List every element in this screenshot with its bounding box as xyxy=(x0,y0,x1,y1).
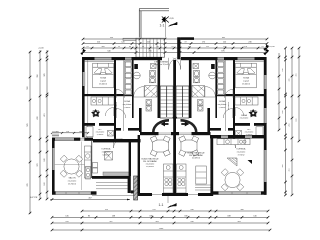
dining right bottom wall xyxy=(176,193,188,196)
stair flight right xyxy=(176,86,189,118)
window segments right wing bottom wall xyxy=(221,135,228,138)
window top wall above left closet xyxy=(125,57,132,59)
svg-text:ne platne: ne platne xyxy=(68,180,77,183)
tick marks top xyxy=(82,37,269,54)
outer wall: top wall left wing xyxy=(82,57,162,60)
bed right: body xyxy=(236,67,257,88)
bedroom left: right wall xyxy=(114,60,116,139)
guide line x81.5 in living xyxy=(81,142,83,191)
bathroom right wall xyxy=(215,60,217,118)
dimension line bottom left small xyxy=(50,199,130,201)
svg-text:7,74m2: 7,74m2 xyxy=(238,155,246,157)
window right bedroom wall xyxy=(264,75,267,89)
svg-text:SOBA: SOBA xyxy=(100,77,106,80)
kitchen counter left living xyxy=(85,146,92,179)
label lower room left xyxy=(96,129,105,136)
svg-text:+0,00: +0,00 xyxy=(269,46,275,48)
bed left: headboard xyxy=(93,63,114,67)
door in bay bottom left xyxy=(159,132,172,134)
label star room right xyxy=(240,114,249,120)
label salon left xyxy=(68,177,77,186)
room2 door arc right xyxy=(223,109,233,119)
star room door arc left xyxy=(105,108,114,117)
bedroom right: left wall xyxy=(233,60,235,139)
window top wall above right bed xyxy=(238,57,255,59)
tall cabinet lower-right room xyxy=(256,127,263,137)
divider wall living/kitchen xyxy=(91,141,93,178)
label dining right xyxy=(188,152,205,160)
label bedroom right xyxy=(242,77,251,86)
svg-text:1,96m2: 1,96m2 xyxy=(246,134,254,136)
round table left living xyxy=(60,155,83,177)
wall below star room left xyxy=(82,123,95,126)
dimension line left mid xyxy=(39,50,41,199)
WC left xyxy=(150,71,156,77)
entry bay curved wall left xyxy=(152,119,169,132)
terrace corner step down xyxy=(128,176,131,193)
window right living right wall xyxy=(264,150,267,182)
dimension line left inner xyxy=(46,50,48,199)
inner face line left wall xyxy=(87,60,89,139)
study door arc left xyxy=(114,139,123,148)
living right: left wall xyxy=(210,136,213,196)
WC right xyxy=(194,71,200,77)
bedroom door right: leaf and arc xyxy=(225,89,234,98)
sideboard right dining xyxy=(196,166,207,184)
window left bedroom wall xyxy=(83,72,86,86)
label room2 right xyxy=(218,100,227,109)
outer wall: left wall upper band xyxy=(82,57,85,141)
svg-text:13,04m2: 13,04m2 xyxy=(242,84,251,86)
right dimension chains xyxy=(278,47,301,197)
washer boxes left xyxy=(146,100,152,106)
washer boxes right xyxy=(198,100,204,106)
svg-text:KUHINJA: KUHINJA xyxy=(102,148,112,151)
bathroom left wall / stair wall right xyxy=(189,60,192,118)
window top wall above left bed xyxy=(95,57,112,59)
wall x139-142 bathroom lower left xyxy=(139,108,142,132)
terrace hatched block xyxy=(134,176,138,200)
living room left: bottom wall glazing xyxy=(55,192,91,195)
bidet right xyxy=(194,78,200,83)
arrow cluster left end of top chains xyxy=(81,49,86,54)
svg-text:KUHINJA: KUHINJA xyxy=(237,148,247,151)
left wing bottom wall xyxy=(93,139,141,142)
dimension line left outer xyxy=(29,51,31,214)
exterior entry stair block xyxy=(136,38,165,57)
inner face line bedroom right top xyxy=(235,60,264,62)
dimension line right d xyxy=(298,48,300,141)
section marker top xyxy=(160,16,175,37)
arrow cluster right end of top chains xyxy=(264,45,269,55)
bed right: pillows xyxy=(237,69,245,75)
bedroom left: bottom wall xyxy=(82,94,133,96)
study door arc right xyxy=(227,139,236,148)
label bedroom left xyxy=(99,77,108,86)
svg-text:140: 140 xyxy=(79,131,82,133)
top dimension chain lines xyxy=(82,37,269,54)
vent box with X right xyxy=(193,64,199,69)
label kitchen left xyxy=(102,148,112,157)
tall cabinet lower-left room xyxy=(86,127,93,137)
dimension line top3 xyxy=(83,47,267,49)
svg-text:zapad: zapad xyxy=(243,81,250,83)
party wall center xyxy=(173,60,176,136)
shower right with diagonals xyxy=(192,86,205,98)
svg-text:HODNIK: HODNIK xyxy=(116,101,118,110)
duct shaft black left xyxy=(134,64,138,69)
window left living wall xyxy=(52,148,55,170)
party wall lower xyxy=(173,136,176,196)
svg-text:1-1: 1-1 xyxy=(160,24,165,28)
star room door arc right xyxy=(235,108,244,117)
room2 door arc left xyxy=(116,109,126,119)
terrace step lines xyxy=(92,183,135,196)
vent box with X left xyxy=(151,64,157,69)
stair flight left xyxy=(160,86,173,118)
study room star table left xyxy=(91,109,100,117)
porch parapet top right xyxy=(180,37,194,40)
svg-text:+2,85: +2,85 xyxy=(169,18,175,20)
washbasin circle left xyxy=(133,72,140,79)
bedroom door left: leaf and arc xyxy=(116,89,125,98)
fridge boxes left kitchen xyxy=(93,163,98,168)
left dimension chains xyxy=(27,50,49,214)
kitchen counter along top right living xyxy=(217,139,250,145)
bathroom door arc left xyxy=(134,87,145,98)
svg-text:1-1: 1-1 xyxy=(159,203,164,207)
svg-text:SALON: SALON xyxy=(68,177,76,180)
dining left bottom wall xyxy=(140,193,152,196)
dining left: left wall xyxy=(129,139,131,176)
label dining left xyxy=(142,158,159,169)
guide line across living xyxy=(55,164,91,166)
closet strip left xyxy=(125,61,133,95)
label room2 left xyxy=(123,100,132,109)
bottom dimension chains xyxy=(30,197,271,232)
small X box lower-left room xyxy=(108,131,114,137)
bed right: headboard xyxy=(236,63,257,67)
porch parapet top left xyxy=(123,38,136,40)
inner face line bedroom left top xyxy=(85,60,114,62)
svg-text:20,09m2: 20,09m2 xyxy=(192,158,201,160)
svg-text:ne platne: ne platne xyxy=(240,117,249,120)
svg-text:1,96m2: 1,96m2 xyxy=(97,134,105,136)
dimension line top2 xyxy=(83,43,267,45)
label vestibule left xyxy=(154,61,170,66)
steps right dining exit xyxy=(195,185,211,190)
dining table right with chairs xyxy=(179,136,199,156)
dimension line bottom2 xyxy=(52,216,268,218)
dimension line bottom total xyxy=(52,229,270,231)
svg-text:ne platne: ne platne xyxy=(218,103,227,106)
label lower room right xyxy=(245,129,254,136)
dining right: kitchen counter along party wall xyxy=(177,164,187,193)
section marker bottom xyxy=(159,196,177,208)
dining table left with chairs xyxy=(150,136,170,156)
entry arrow left xyxy=(161,122,169,127)
stair treads xyxy=(140,38,161,57)
dimension line right c xyxy=(291,48,293,195)
corridor wall line xyxy=(123,60,125,131)
outer wall: right wall upper band xyxy=(264,57,267,141)
kitchen counter along party wall left xyxy=(164,164,174,193)
dimension line top4 xyxy=(83,52,267,54)
washbasin circle right xyxy=(209,72,216,79)
bed left: body xyxy=(93,67,114,88)
terrace wall dark band xyxy=(92,176,130,179)
kitchen island left xyxy=(105,152,113,161)
living right: bottom wall glazing xyxy=(218,192,262,195)
window top wall above right closet xyxy=(218,57,225,59)
small bars left of living room xyxy=(52,132,59,134)
room2 bottom wall left xyxy=(116,128,121,131)
svg-text:ne platne: ne platne xyxy=(237,151,246,154)
dimension line top1 xyxy=(83,38,267,40)
entry arrow right xyxy=(181,122,189,127)
svg-text:547 PR: 547 PR xyxy=(30,197,38,199)
living room left: left wall xyxy=(52,138,55,195)
svg-text:SOBA: SOBA xyxy=(243,77,249,80)
wall x207-210 bathroom lower right xyxy=(207,108,210,132)
round table right living xyxy=(221,169,244,191)
door gap in wall at x81 xyxy=(80,137,84,141)
bathroom door arc right xyxy=(205,87,216,98)
wardrobe row under bedroom right xyxy=(235,97,258,105)
svg-text:HODNIK: HODNIK xyxy=(228,101,230,110)
dimension line bottom3 xyxy=(52,222,268,224)
svg-text:120: 120 xyxy=(66,131,69,133)
svg-text:13,74m2: 13,74m2 xyxy=(68,184,77,186)
diamond marker center xyxy=(172,115,177,120)
svg-text:20,09m2: 20,09m2 xyxy=(146,166,155,168)
dimension line right b xyxy=(285,48,287,195)
bathroom left wall xyxy=(132,60,134,118)
closet strip right xyxy=(217,61,225,95)
small X box lower-right room xyxy=(236,131,242,137)
bidet left xyxy=(150,78,156,83)
outer wall: top wall right wing xyxy=(181,57,267,60)
wall below star room right xyxy=(254,123,267,126)
porch side wall right xyxy=(177,37,180,59)
canopy edge line above entrance xyxy=(139,9,169,38)
entry bay curved wall right xyxy=(181,119,198,132)
entry door right apartment xyxy=(173,58,181,70)
living right: right wall lower xyxy=(264,141,267,195)
svg-text:ne platne: ne platne xyxy=(102,151,111,154)
svg-text:5,66m2: 5,66m2 xyxy=(103,155,111,157)
duct shaft black right xyxy=(211,64,215,69)
label kitchen right xyxy=(237,148,247,157)
center bottom wall of bay xyxy=(140,132,159,135)
entry door left apartment xyxy=(169,58,177,70)
mini dimension chain above living left xyxy=(51,131,89,134)
bathroom right wall / stair wall xyxy=(158,60,161,118)
dimension numbers top xyxy=(0,0,1,1)
door in bay bottom right xyxy=(179,132,192,134)
study room star table right xyxy=(249,109,258,117)
svg-text:13,04m2: 13,04m2 xyxy=(99,84,108,86)
svg-text:zapad: zapad xyxy=(100,81,107,83)
corner hatch unit right living xyxy=(227,158,237,166)
window right study wall xyxy=(264,108,267,124)
svg-text:7,46m2: 7,46m2 xyxy=(219,107,227,109)
svg-text:+0,00: +0,00 xyxy=(38,48,44,50)
wardrobe row under bedroom left xyxy=(91,97,114,105)
dimension line bottom1 xyxy=(82,210,268,212)
right wing bottom wall xyxy=(210,135,267,138)
bedroom right: bottom wall xyxy=(216,94,267,96)
bed left: pillows xyxy=(94,69,102,75)
entrance direction flag top xyxy=(169,22,178,26)
window in living top wall xyxy=(55,138,74,141)
dimension line right a xyxy=(278,53,280,130)
svg-text:ne platne 3,1m2: ne platne 3,1m2 xyxy=(154,63,170,66)
shower left with diagonals xyxy=(145,86,158,98)
svg-text:SOBA: SOBA xyxy=(219,100,225,103)
svg-text:SOBA: SOBA xyxy=(124,100,130,103)
corridor wall line right xyxy=(225,60,227,131)
black triangle mark right living xyxy=(248,160,253,164)
svg-text:ne platne: ne platne xyxy=(123,103,132,106)
kitchen room bottom counter xyxy=(103,172,130,175)
room2 bottom wall right xyxy=(228,128,233,131)
svg-text:7,46m2: 7,46m2 xyxy=(124,107,132,109)
